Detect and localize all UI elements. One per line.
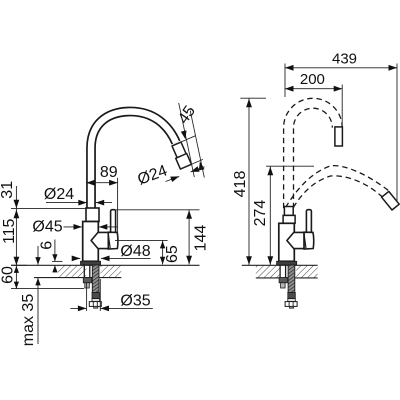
faucet spout (left view)	[91, 112, 176, 212]
base plate	[81, 261, 101, 265]
spray head up position	[335, 127, 343, 146]
svg-text:60: 60	[0, 266, 16, 284]
mounting stud	[83, 265, 85, 278]
hose connector	[92, 293, 100, 299]
dashed spout up position (outer)	[284, 98, 343, 208]
countertop (right view)	[256, 265, 281, 278]
svg-text:439: 439	[332, 51, 357, 68]
spray head down position	[382, 191, 400, 210]
base plate (right view)	[277, 261, 297, 265]
spray head (left view)	[176, 154, 192, 170]
svg-text:144: 144	[193, 225, 210, 252]
mounting stud (right view)	[279, 265, 281, 278]
dashed spout up position (inner)	[293, 108, 332, 208]
dashed spout down position (inner)	[293, 176, 382, 208]
svg-text:115: 115	[1, 218, 18, 244]
svg-text:274: 274	[252, 200, 269, 227]
svg-text:31: 31	[0, 181, 16, 199]
riser stub (right view)	[284, 207, 293, 216]
handle base	[108, 232, 118, 249]
svg-text:Ø48: Ø48	[120, 243, 150, 260]
handle base (right view)	[304, 232, 314, 249]
spout holder (right view)	[287, 232, 304, 248]
hose hex nut	[89, 302, 101, 307]
faucet body (right view)	[279, 223, 295, 261]
stud nut (right view)	[279, 278, 287, 283]
handle lever rod (right view)	[306, 210, 311, 233]
riser connector	[86, 208, 99, 222]
hose hex nut (right view)	[285, 302, 297, 307]
riser connector (right view)	[283, 215, 295, 223]
svg-text:Ø35: Ø35	[120, 293, 150, 310]
stud nut	[83, 278, 91, 283]
dashed spout down position (outer)	[286, 166, 389, 208]
countertop (left view)	[58, 265, 87, 277]
svg-text:6: 6	[38, 241, 55, 250]
spout holder	[91, 232, 108, 248]
threaded shank	[92, 265, 99, 293]
svg-text:max 35: max 35	[20, 294, 37, 347]
threaded shank (right view)	[288, 265, 295, 293]
handle lever rod	[111, 210, 116, 233]
svg-text:Ø24: Ø24	[44, 186, 74, 203]
svg-text:200: 200	[300, 71, 325, 88]
hose connector (right view)	[288, 293, 296, 299]
svg-text:Ø45: Ø45	[32, 219, 62, 236]
faucet body	[83, 222, 99, 262]
svg-text:89: 89	[100, 164, 118, 181]
spout-head joint	[172, 142, 186, 158]
svg-text:418: 418	[232, 171, 249, 198]
svg-text:65: 65	[164, 245, 181, 263]
